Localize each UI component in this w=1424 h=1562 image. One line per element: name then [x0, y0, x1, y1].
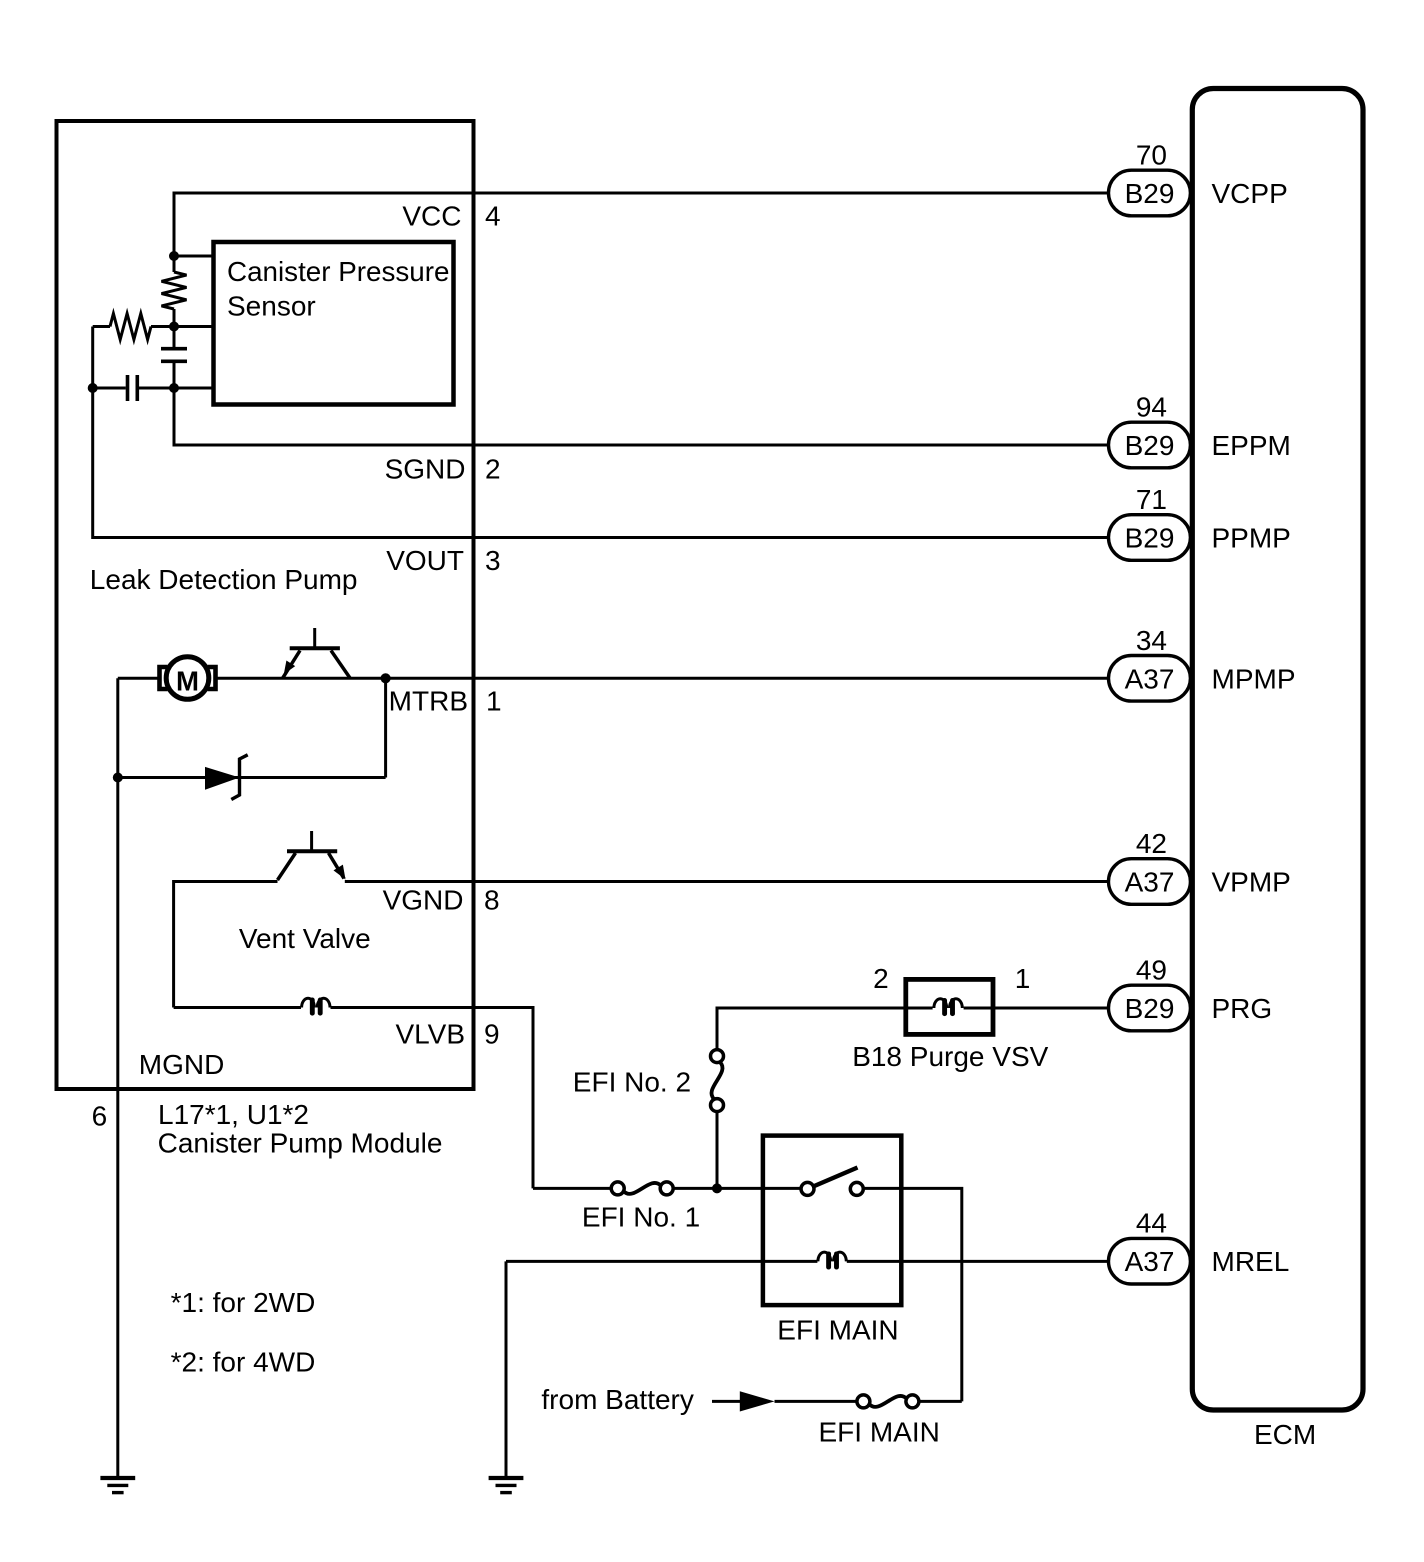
svg-text:B18 Purge VSV: B18 Purge VSV [852, 1041, 1048, 1072]
svg-text:MGND: MGND [139, 1049, 225, 1080]
transistor Q2 [278, 831, 346, 880]
ECM pin 42 connector A37 VPMP [1109, 828, 1291, 904]
svg-text:70: 70 [1136, 140, 1167, 171]
node junction mid [169, 322, 179, 332]
svg-text:EFI MAIN: EFI MAIN [819, 1416, 940, 1447]
svg-text:L17*1, U1*2: L17*1, U1*2 [158, 1099, 309, 1130]
svg-text:A37: A37 [1125, 867, 1175, 898]
svg-text:B29: B29 [1125, 523, 1175, 554]
svg-text:VOUT: VOUT [386, 545, 464, 576]
svg-text:49: 49 [1136, 955, 1167, 986]
node junction EFI2/EFI1 [712, 1183, 722, 1193]
svg-text:MREL: MREL [1212, 1246, 1290, 1277]
wire PRG net [716, 1112, 719, 1189]
battery arrow [712, 1400, 742, 1403]
zener diode D1 [205, 755, 248, 800]
relay switch [801, 1168, 863, 1196]
fuse EFI No. 2 [711, 1050, 724, 1112]
svg-text:SGND: SGND [385, 454, 466, 485]
svg-text:PRG: PRG [1212, 993, 1273, 1024]
svg-text:MPMP: MPMP [1212, 663, 1296, 694]
capacitor C1 (vertical) [173, 327, 176, 348]
transistor Q1 [283, 628, 351, 678]
EFI MAIN relay box [763, 1136, 901, 1306]
wire motor rail to MPMP [118, 677, 158, 680]
canister pump module box [57, 121, 474, 1089]
resistor R1 (vertical) [173, 256, 176, 272]
svg-text:from Battery: from Battery [541, 1384, 693, 1415]
svg-text:B29: B29 [1125, 993, 1175, 1024]
wire VCC net: sensor to VCPP [174, 193, 1110, 258]
capacitor C2 (horizontal) [93, 387, 126, 390]
node junction MTRB [381, 673, 391, 683]
wire battery feed [775, 1400, 857, 1403]
svg-text:*2: for 4WD: *2: for 4WD [171, 1346, 316, 1377]
svg-text:VPMP: VPMP [1212, 867, 1291, 898]
svg-text:Sensor: Sensor [227, 291, 316, 322]
wire VOUT net to PPMP [93, 388, 1110, 538]
resistor R2 (horizontal) [93, 325, 110, 328]
svg-text:6: 6 [92, 1101, 108, 1132]
svg-text:PPMP: PPMP [1212, 523, 1291, 554]
wire MREL ground leg [505, 1261, 508, 1478]
svg-text:3: 3 [485, 545, 501, 576]
svg-text:9: 9 [484, 1019, 500, 1050]
svg-text:VGND: VGND [383, 884, 464, 915]
svg-text:EFI No. 2: EFI No. 2 [573, 1067, 691, 1098]
svg-text:44: 44 [1136, 1208, 1167, 1239]
wire left branch down [91, 327, 94, 389]
svg-text:42: 42 [1136, 828, 1167, 859]
motor M1 [160, 657, 216, 700]
wire sensor pin bottom [174, 387, 214, 390]
ground left [100, 1478, 135, 1493]
svg-text:A37: A37 [1125, 1246, 1175, 1277]
svg-text:4: 4 [485, 201, 501, 232]
canister pressure sensor box [214, 242, 454, 405]
svg-text:8: 8 [484, 884, 500, 915]
svg-text:ECM: ECM [1254, 1419, 1316, 1450]
svg-text:A37: A37 [1125, 663, 1175, 694]
node junction at C2 left [88, 383, 98, 393]
wire VGND net to VPMP [174, 882, 278, 1008]
svg-text:Canister Pressure: Canister Pressure [227, 256, 450, 287]
svg-text:Leak Detection Pump: Leak Detection Pump [90, 564, 358, 595]
inductor L3 purge VSV coil [934, 999, 962, 1014]
svg-text:EFI No. 1: EFI No. 1 [582, 1202, 700, 1233]
wire zener branch [118, 776, 386, 779]
svg-text:M: M [176, 665, 199, 696]
svg-text:EFI MAIN: EFI MAIN [777, 1314, 898, 1345]
svg-text:Vent Valve: Vent Valve [239, 923, 371, 954]
purge VSV box [906, 979, 993, 1034]
ECM pin 71 connector B29 PPMP [1109, 484, 1291, 560]
wire MREL net [506, 1260, 817, 1263]
svg-text:1: 1 [486, 686, 502, 717]
svg-text:B29: B29 [1125, 178, 1175, 209]
ECM pin 70 connector B29 VCPP [1109, 140, 1288, 216]
svg-text:2: 2 [485, 454, 501, 485]
node junction at sensor pin 3 [169, 383, 179, 393]
svg-text:EPPM: EPPM [1212, 430, 1291, 461]
inductor L1 vent valve coil [302, 998, 330, 1013]
ECM pin 49 connector B29 PRG [1109, 955, 1273, 1031]
svg-text:MTRB: MTRB [389, 686, 468, 717]
wire sensor pin mid [174, 325, 214, 328]
svg-text:1: 1 [1015, 963, 1031, 994]
ECM pin 44 connector A37 MREL [1109, 1208, 1290, 1284]
svg-text:34: 34 [1136, 625, 1167, 656]
wire SGND net to EPPM [174, 388, 1110, 445]
svg-text:VCC: VCC [402, 201, 461, 232]
ECM pin 34 connector A37 MPMP [1109, 625, 1296, 701]
wire EFI No.1 rail [533, 1187, 611, 1190]
svg-text:2: 2 [873, 963, 889, 994]
wire VLVB net [174, 1006, 301, 1009]
ECM box [1192, 89, 1363, 1411]
ECM pin 94 connector B29 EPPM [1109, 392, 1291, 468]
wire sensor pin top [174, 255, 214, 258]
wire left vertical to ground [116, 678, 119, 1478]
svg-text:*1: for 2WD: *1: for 2WD [171, 1287, 316, 1318]
wire MTRB down leg [384, 678, 387, 777]
inductor L2 relay coil [818, 1252, 846, 1267]
svg-text:Canister Pump Module: Canister Pump Module [158, 1127, 443, 1158]
ground right [489, 1478, 524, 1493]
svg-text:71: 71 [1136, 484, 1167, 515]
svg-text:94: 94 [1136, 392, 1167, 423]
svg-text:B29: B29 [1125, 430, 1175, 461]
node junction zener left [113, 773, 123, 783]
node junction VCC/resistor [169, 251, 179, 261]
svg-text:VCPP: VCPP [1212, 178, 1288, 209]
fuse EFI MAIN [857, 1395, 919, 1408]
wire switch to down leg [863, 1188, 962, 1401]
fuse EFI No. 1 [611, 1182, 673, 1195]
svg-text:VLVB: VLVB [395, 1019, 465, 1050]
